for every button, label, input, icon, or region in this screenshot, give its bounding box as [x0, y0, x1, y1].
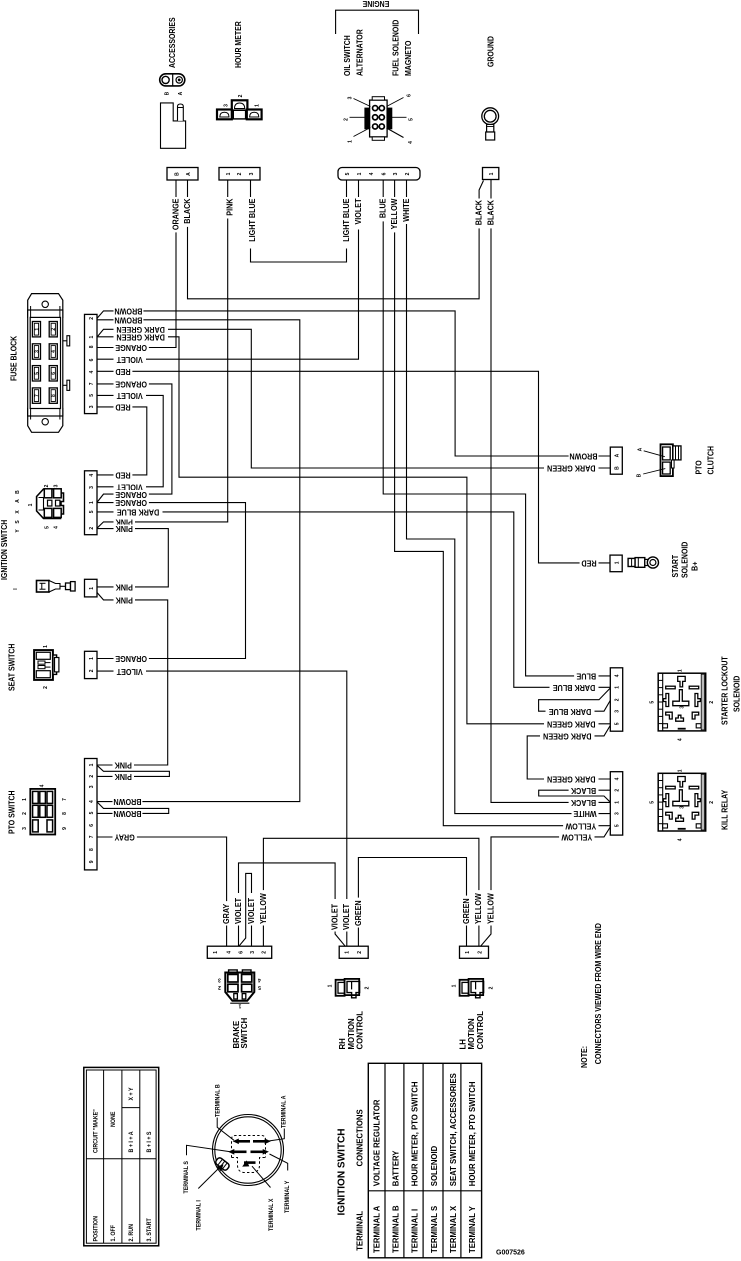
wire YELLOW brake switch pin 2 to LH motion control pin 2 — [263, 838, 479, 946]
terminal table row line x=385.0 — [384, 1063, 386, 1258]
fuse slot 3 — [32, 344, 40, 359]
fuse block mounting hole top — [42, 301, 48, 307]
svg-text:1: 1 — [255, 104, 261, 107]
svg-text:4: 4 — [678, 738, 684, 741]
wire DARK GREEN fuse pin 1 (diagonal) to PTO clutch B — [97, 329, 610, 468]
hour meter left wing — [217, 110, 232, 120]
svg-text:A: A — [186, 172, 192, 176]
svg-text:7: 7 — [62, 798, 68, 801]
svg-text:2: 2 — [262, 951, 268, 954]
label VILOET (seat) — [114, 667, 147, 675]
svg-text:2: 2 — [405, 172, 411, 175]
pto clutch connector strip pins A B — [610, 447, 622, 474]
label YELLOW (brake 2) — [259, 890, 267, 925]
label DARK GREEN (kill 4) — [544, 775, 599, 783]
svg-text:MOTION: MOTION — [347, 1018, 356, 1050]
svg-text:TERMINAL A: TERMINAL A — [372, 1206, 381, 1253]
pto clutch leader A — [644, 451, 665, 457]
svg-text:4: 4 — [258, 977, 261, 983]
wire RED fuse pin 3 to ignition pin 4 — [97, 407, 147, 475]
fuse block right tabs — [63, 340, 68, 342]
svg-text:B: B — [175, 172, 181, 176]
label BROWN — [114, 307, 144, 315]
terminal table row line x=423.1 — [422, 1063, 424, 1258]
svg-text:1: 1 — [357, 172, 363, 175]
svg-text:DARK BLUE: DARK BLUE — [553, 683, 595, 693]
svg-text:DARK GREEN: DARK GREEN — [547, 774, 596, 784]
svg-text:1. OFF: 1. OFF — [111, 1225, 117, 1242]
svg-text:3: 3 — [680, 706, 686, 709]
svg-text:1: 1 — [615, 686, 621, 689]
svg-text:ENGINE: ENGINE — [363, 0, 390, 9]
svg-text:RH: RH — [338, 1038, 347, 1050]
svg-text:PINK: PINK — [114, 760, 132, 770]
svg-text:2: 2 — [364, 986, 370, 989]
svg-text:1: 1 — [615, 561, 621, 564]
svg-text:2: 2 — [344, 118, 350, 121]
svg-text:ORANGE: ORANGE — [115, 379, 147, 389]
svg-text:TERMINAL X: TERMINAL X — [269, 1198, 275, 1231]
svg-text:4: 4 — [89, 370, 95, 373]
svg-text:2: 2 — [89, 317, 95, 320]
svg-text:1: 1 — [89, 587, 95, 590]
wire GREEN RH motion control pin 2 to LH motion control pin 1 — [358, 858, 466, 947]
ignition connector strip pins 4 3 1 5 2 — [85, 471, 98, 535]
wire VIOLET engine-1 to fuse pin 6 — [97, 180, 359, 359]
svg-text:SWITCH: SWITCH — [240, 1017, 249, 1048]
svg-text:SOLENOID: SOLENOID — [680, 541, 690, 578]
svg-text:1: 1 — [615, 801, 621, 804]
start solenoid connector box pin 1 — [610, 555, 622, 572]
svg-text:RED: RED — [115, 470, 131, 480]
svg-text:BROWN: BROWN — [113, 809, 141, 819]
svg-text:ORANGE: ORANGE — [115, 343, 147, 353]
svg-text:8: 8 — [89, 848, 95, 851]
svg-text:5: 5 — [615, 824, 621, 827]
svg-text:1: 1 — [43, 645, 49, 648]
label GREEN (rh 2) — [354, 898, 362, 928]
svg-text:2: 2 — [477, 951, 483, 954]
svg-text:2: 2 — [51, 328, 57, 331]
svg-text:BLACK: BLACK — [570, 798, 596, 808]
wire RED fuse pin 4 to start solenoid B+ — [97, 371, 610, 563]
svg-text:3: 3 — [249, 172, 255, 175]
svg-text:BLACK: BLACK — [570, 786, 596, 796]
svg-text:POSITION: POSITION — [93, 1216, 99, 1241]
svg-text:5: 5 — [345, 172, 351, 175]
svg-text:3: 3 — [393, 172, 399, 175]
label WHITE (kill 3) — [572, 810, 599, 818]
svg-text:BLACK: BLACK — [474, 200, 484, 226]
svg-text:6: 6 — [89, 824, 95, 827]
svg-text:2: 2 — [89, 669, 95, 672]
hour meter right wing — [247, 110, 262, 120]
label DARK GREEN (pto clutch B) — [544, 464, 599, 472]
pto switch icon — [30, 789, 55, 835]
label VIOLET (brake 3) — [247, 893, 255, 926]
svg-text:8: 8 — [89, 345, 95, 348]
svg-text:2: 2 — [89, 527, 95, 530]
label PINK (key diag) — [114, 596, 136, 604]
wire BLACK ground lug to kill relay pin 1 — [491, 180, 610, 803]
svg-text:ALTERNATOR: ALTERNATOR — [355, 29, 365, 76]
fuse block connector strip pins 2 1 8 6 4 7 5 3 — [85, 314, 98, 413]
svg-text:2: 2 — [218, 984, 221, 990]
svg-text:1: 1 — [89, 763, 95, 766]
engine pin leader 2 — [350, 116, 365, 118]
terminal bar Y (middle right) — [251, 1151, 264, 1154]
wire DARK GREEN starter lockout pin 5 (diagonal) to kill relay pin 4 — [527, 725, 610, 779]
svg-text:1: 1 — [22, 798, 28, 801]
fuse slot 7 — [32, 388, 40, 403]
engine connector strip 5 1 4 6 3 2 — [338, 168, 420, 181]
svg-text:3: 3 — [22, 827, 28, 830]
svg-text:SOLENOID: SOLENOID — [732, 675, 741, 712]
fuse slot 8 — [49, 388, 57, 403]
label YELLOW (kill 5) — [563, 822, 598, 830]
terminal table row line x=460.9 — [460, 1063, 462, 1258]
svg-text:1: 1 — [465, 951, 471, 954]
svg-text:4: 4 — [54, 526, 60, 529]
svg-text:4: 4 — [40, 784, 46, 787]
svg-text:HOUR METER: HOUR METER — [233, 21, 243, 68]
brake switch icon — [225, 973, 254, 1001]
label BROWN (pto 5) — [113, 809, 143, 817]
terminal bar X (bottom) — [244, 1161, 256, 1164]
svg-text:4: 4 — [615, 777, 621, 780]
svg-text:BLUE: BLUE — [576, 671, 596, 681]
svg-text:5: 5 — [258, 984, 261, 990]
svg-text:KILL RELAY: KILL RELAY — [720, 789, 730, 830]
svg-text:1: 1 — [452, 984, 458, 987]
wire VIOLET seat switch pin 2 to RH motion control pin 1 — [97, 671, 347, 946]
leader TERMINAL S — [187, 1145, 230, 1155]
svg-text:5: 5 — [650, 701, 656, 704]
svg-text:3: 3 — [680, 806, 686, 809]
label VIOLET (brake 6) — [234, 893, 242, 926]
wire DARK GREEN fuse pin 1 to starter lockout pin 5 — [97, 337, 610, 724]
ground connector strip 1 — [483, 168, 499, 180]
svg-text:5: 5 — [409, 118, 415, 121]
label GREEN (lh 1) — [462, 896, 470, 926]
svg-text:2: 2 — [238, 94, 244, 97]
svg-text:GRAY: GRAY — [221, 903, 231, 924]
svg-text:ORANGE: ORANGE — [115, 490, 147, 500]
svg-text:1: 1 — [678, 669, 684, 672]
svg-text:3: 3 — [615, 710, 621, 713]
svg-text:TERMINAL B: TERMINAL B — [391, 1205, 400, 1253]
label YELLOW (lh diag) — [487, 890, 495, 925]
dashed contact cup — [232, 1158, 266, 1173]
svg-text:3. START: 3. START — [147, 1218, 153, 1242]
svg-text:DARK GREEN: DARK GREEN — [543, 731, 592, 741]
svg-text:GRAY: GRAY — [114, 832, 135, 842]
wire VIOLET jumper brake switch pin 6 (diagonal) to pin 3 — [239, 873, 251, 946]
svg-text:VIOLET: VIOLET — [116, 391, 142, 401]
engine connector body — [370, 100, 388, 137]
svg-text:6: 6 — [89, 358, 95, 361]
label PINK — [114, 518, 136, 526]
brake switch connector strip pins 1 4 6 3 2 — [207, 946, 271, 958]
svg-text:YELLOW: YELLOW — [561, 832, 593, 842]
svg-text:B: B — [15, 490, 21, 494]
label DARK BLUE — [114, 508, 163, 516]
fuse slot 2 — [49, 322, 57, 337]
svg-text:8: 8 — [62, 812, 68, 815]
label RED — [114, 403, 133, 411]
label ORANGE wire — [172, 197, 180, 232]
svg-text:1: 1 — [344, 951, 350, 954]
svg-text:VOLTAGE REGULATOR: VOLTAGE REGULATOR — [372, 1099, 381, 1186]
terminal table row line x=443.0 — [442, 1063, 444, 1258]
svg-text:3: 3 — [89, 486, 95, 489]
dashed contact outline — [232, 1136, 266, 1158]
svg-text:SOLENOID: SOLENOID — [430, 1146, 439, 1186]
ignition switch plug icon — [37, 489, 64, 519]
hour meter center lower box — [233, 110, 245, 119]
label BROWN (pto clutch A) — [569, 452, 599, 460]
svg-text:2: 2 — [615, 789, 621, 792]
svg-text:LH: LH — [459, 1039, 468, 1050]
svg-text:HOUR METER, PTO SWITCH: HOUR METER, PTO SWITCH — [410, 1081, 419, 1186]
svg-text:2: 2 — [237, 172, 243, 175]
accessories connector strip B A — [167, 168, 198, 181]
engine pin leader 6 — [387, 98, 404, 107]
svg-text:1: 1 — [328, 984, 334, 987]
leader TERMINAL A — [269, 1129, 285, 1142]
svg-text:3: 3 — [89, 405, 95, 408]
label GRAY (brake 4) — [223, 901, 231, 925]
label BLACK (kill 2) — [569, 786, 599, 794]
svg-text:3: 3 — [615, 812, 621, 815]
svg-text:PINK: PINK — [115, 524, 133, 534]
svg-text:PINK: PINK — [225, 198, 235, 216]
wire DARK BLUE ignition pin 5 to starter lockout pin 1 — [97, 512, 610, 687]
svg-text:9: 9 — [62, 827, 68, 830]
svg-text:DARK GREEN: DARK GREEN — [116, 332, 165, 342]
svg-text:ORANGE: ORANGE — [171, 199, 181, 231]
engine pin leader 1 — [354, 128, 371, 137]
svg-text:3: 3 — [250, 951, 256, 954]
position table inner border — [86, 1070, 156, 1243]
svg-text:PTO: PTO — [694, 460, 704, 474]
svg-text:2: 2 — [22, 812, 28, 815]
svg-text:PINK: PINK — [115, 582, 133, 592]
svg-text:BROWN: BROWN — [113, 797, 141, 807]
svg-text:MAGNETO: MAGNETO — [403, 41, 413, 76]
svg-text:2. RUN: 2. RUN — [129, 1224, 135, 1241]
svg-text:GROUND: GROUND — [486, 36, 496, 67]
svg-text:6: 6 — [238, 951, 244, 954]
label DARK GREEN (lockout diag) — [540, 732, 595, 740]
svg-text:8: 8 — [51, 394, 57, 397]
label GRAY (pto 7) — [113, 833, 137, 841]
svg-text:TERMINAL: TERMINAL — [355, 1211, 364, 1251]
svg-text:YELLOW: YELLOW — [486, 892, 496, 924]
label PINK — [114, 525, 136, 533]
label DARK GREEN — [114, 325, 169, 333]
svg-text:9: 9 — [89, 860, 95, 863]
wire WHITE engine-2 to kill relay pin 3 — [407, 180, 611, 814]
svg-text:1: 1 — [678, 769, 684, 772]
svg-text:HOUR METER, PTO SWITCH: HOUR METER, PTO SWITCH — [468, 1081, 477, 1186]
position table column line 3 — [139, 1070, 141, 1243]
label ORANGE — [114, 499, 149, 507]
label WHITE wire (engine) — [402, 197, 410, 224]
engine pin leader 5 — [392, 116, 407, 118]
terminal table divider — [368, 1190, 481, 1192]
fuse slot 6 — [49, 366, 57, 381]
svg-text:VILOET: VILOET — [116, 667, 142, 677]
svg-text:5: 5 — [89, 394, 95, 397]
svg-text:TERMINAL Y: TERMINAL Y — [285, 1181, 291, 1213]
wire BLUE engine-6 to starter lockout pin 4 — [383, 180, 610, 676]
leader TERMINAL Y — [270, 1154, 288, 1171]
fuse block mounting hole bottom — [42, 419, 48, 425]
svg-text:B+: B+ — [690, 561, 700, 571]
label BROWN (pto 4) — [113, 798, 143, 806]
svg-text:BATTERY: BATTERY — [391, 1150, 400, 1186]
seat switch icon — [34, 650, 53, 680]
svg-text:1: 1 — [28, 503, 34, 506]
svg-text:WHITE: WHITE — [573, 809, 596, 819]
svg-text:RED: RED — [115, 402, 131, 412]
kill relay connector strip pins 4 2 1 3 5 — [610, 772, 622, 835]
svg-text:2: 2 — [43, 686, 49, 689]
kill relay socket icon — [658, 773, 706, 831]
label PINK (key) — [114, 583, 136, 591]
svg-text:NOTE:: NOTE: — [579, 1046, 589, 1068]
label ORANGE — [114, 490, 149, 498]
svg-text:B: B — [615, 466, 621, 470]
label YELLOW wire (engine) — [391, 197, 399, 232]
svg-text:YELLOW: YELLOW — [390, 198, 400, 230]
svg-text:BROWN: BROWN — [114, 306, 142, 316]
svg-text:CIRCUIT "MAKE": CIRCUIT "MAKE" — [93, 1109, 99, 1153]
accessories plug prong — [178, 104, 184, 121]
label DARK BLUE (lockout 1) — [550, 683, 599, 691]
engine pin leader 4 — [387, 128, 404, 138]
svg-text:1: 1 — [34, 328, 40, 331]
svg-text:TERMINAL A: TERMINAL A — [281, 1095, 287, 1128]
svg-text:BLACK: BLACK — [486, 200, 496, 226]
svg-text:SEAT SWITCH, ACCESSORIES: SEAT SWITCH, ACCESSORIES — [448, 1073, 457, 1186]
starter lockout solenoid socket icon — [658, 673, 706, 731]
seat connector strip pins 1 2 — [85, 651, 98, 678]
svg-text:5: 5 — [89, 510, 95, 513]
svg-text:3: 3 — [89, 785, 95, 788]
svg-text:VIOLET: VIOLET — [116, 355, 142, 365]
svg-text:1: 1 — [348, 140, 354, 143]
svg-text:B + I + A: B + I + A — [129, 1131, 135, 1153]
svg-text:GREEN: GREEN — [461, 898, 471, 924]
key tab icon — [215, 1157, 231, 1172]
svg-text:6: 6 — [407, 94, 413, 97]
svg-text:TERMINAL I: TERMINAL I — [410, 1209, 419, 1253]
wire DARK BLUE jumper starter lockout pin 1 (diagonal) to pin 2 — [539, 688, 611, 711]
svg-text:CONTROL: CONTROL — [356, 1011, 365, 1050]
svg-text:4: 4 — [615, 674, 621, 677]
svg-text:6: 6 — [51, 372, 57, 375]
svg-text:1: 1 — [213, 951, 219, 954]
engine connector right tab — [387, 108, 392, 129]
svg-text:7: 7 — [89, 835, 95, 838]
svg-text:BLUE: BLUE — [378, 199, 388, 219]
svg-text:TERMINAL Y: TERMINAL Y — [468, 1206, 477, 1253]
lh motion control connector strip pins 1 2 — [460, 946, 489, 958]
wire BROWN jumper PTO switch pin 4 (diagonal) to pin 5 — [97, 802, 169, 814]
key switch outer circle — [213, 1115, 284, 1186]
fuse slot 1 — [32, 322, 40, 337]
svg-text:ACCESSORIES: ACCESSORIES — [167, 17, 177, 68]
svg-text:ORANGE: ORANGE — [115, 654, 147, 664]
label BLACK (kill 1) — [569, 798, 599, 806]
key switch inner circle — [215, 1117, 281, 1183]
svg-text:OIL SWITCH: OIL SWITCH — [342, 35, 352, 76]
svg-text:IGNITION SWITCH: IGNITION SWITCH — [335, 1129, 347, 1216]
svg-text:3: 3 — [34, 350, 40, 353]
svg-text:GREEN: GREEN — [353, 900, 363, 926]
label BROWN — [114, 316, 144, 324]
wire VIOLET brake switch pin 6 to RH motion control pin 1 (diagonal) — [239, 863, 346, 946]
svg-text:A: A — [615, 453, 621, 457]
svg-text:LIGHT BLUE: LIGHT BLUE — [341, 199, 351, 242]
pto clutch icon — [661, 444, 673, 476]
terminal table row line x=403.9 — [403, 1063, 405, 1258]
svg-text:X + Y: X + Y — [129, 1087, 135, 1100]
svg-text:1: 1 — [89, 501, 95, 504]
label DARK GREEN (lockout 5) — [544, 720, 599, 728]
svg-text:FUSE BLOCK: FUSE BLOCK — [9, 335, 19, 381]
svg-text:A: A — [178, 91, 184, 95]
label ORANGE (seat) — [114, 654, 149, 662]
svg-text:PINK: PINK — [114, 772, 132, 782]
wire PINK jumper PTO switch pin 1 (diagonal) to pin 2 — [97, 765, 169, 776]
engine connector left tab — [365, 108, 370, 129]
label VIOLET — [114, 483, 147, 491]
svg-text:4: 4 — [51, 350, 57, 353]
label PINK (pto 2) — [113, 772, 135, 780]
svg-text:4: 4 — [678, 838, 684, 841]
svg-text:DARK GREEN: DARK GREEN — [547, 719, 596, 729]
svg-text:LIGHT BLUE: LIGHT BLUE — [248, 199, 258, 242]
svg-text:7: 7 — [34, 394, 40, 397]
svg-text:3: 3 — [54, 484, 60, 487]
pto clutch leader B — [643, 469, 665, 474]
svg-text:CLUTCH: CLUTCH — [706, 446, 716, 475]
svg-text:4: 4 — [89, 800, 95, 803]
svg-text:5: 5 — [615, 722, 621, 725]
svg-text:B: B — [637, 473, 643, 477]
label VIOLET wire (engine) — [354, 197, 362, 230]
svg-text:RED: RED — [115, 367, 131, 377]
svg-text:B: B — [165, 91, 171, 95]
svg-text:2: 2 — [44, 484, 50, 487]
svg-text:TERMINAL I: TERMINAL I — [196, 1200, 202, 1231]
wire GRAY PTO switch pin 7 to brake switch pin 4 — [97, 837, 227, 946]
svg-text:2: 2 — [709, 701, 715, 704]
svg-text:CONNECTORS VIEWED FROM WIRE EN: CONNECTORS VIEWED FROM WIRE END — [593, 923, 603, 1065]
svg-text:4: 4 — [369, 172, 375, 175]
svg-text:BROWN: BROWN — [114, 315, 142, 325]
wire YELLOW kill relay pin 5 (diagonal) to LH motion control pin 2 (diagonal) — [481, 827, 611, 946]
LH motion control connector icon — [460, 980, 469, 996]
svg-text:3: 3 — [218, 977, 221, 983]
label RED — [114, 367, 133, 375]
start solenoid ring terminal icon — [628, 558, 635, 566]
wire BLACK accessories-A to engine ground lug — [188, 180, 484, 299]
svg-text:PTO SWITCH: PTO SWITCH — [7, 790, 17, 834]
